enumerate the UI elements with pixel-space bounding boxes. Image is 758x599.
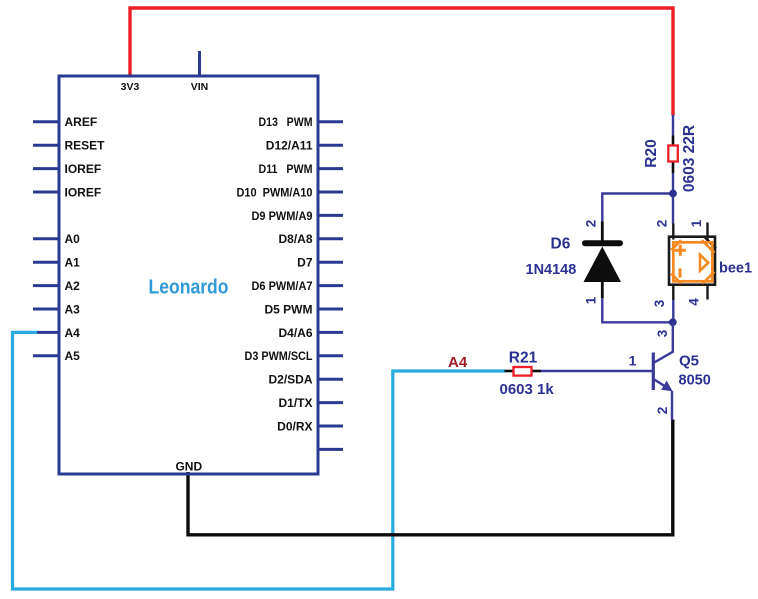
pin IOREF2 stub — [33, 191, 59, 194]
svg-text:A4: A4 — [448, 354, 468, 371]
svg-text:D6: D6 — [551, 236, 571, 253]
wire GND net (black) — [188, 420, 673, 535]
pin D7 stub — [318, 261, 343, 264]
junction dot at collector node — [669, 318, 677, 326]
speaker triangle — [700, 255, 708, 271]
resistor R21 leads — [505, 370, 542, 373]
pin A1 stub — [33, 261, 59, 264]
svg-text:D4/A6: D4/A6 — [278, 326, 312, 340]
wire R21 to Q5 base — [541, 370, 652, 372]
svg-text:3: 3 — [655, 329, 670, 337]
svg-text:D7: D7 — [297, 256, 313, 270]
pin A3 stub — [33, 308, 59, 311]
pin D9 stub — [318, 214, 343, 217]
pin D12 stub — [318, 144, 343, 147]
right pin stubs — [318, 122, 343, 450]
svg-text:3: 3 — [652, 299, 667, 307]
pin A4 stub — [37, 331, 59, 334]
Arduino Leonardo module body — [59, 76, 318, 474]
pin RESET stub — [33, 144, 59, 147]
svg-text:A5: A5 — [65, 349, 81, 363]
wire node down to buzzer pin 2 — [672, 194, 674, 224]
svg-text:1: 1 — [584, 296, 599, 304]
svg-text:D12/A11: D12/A11 — [266, 139, 313, 153]
svg-text:D3 PWM/SCL: D3 PWM/SCL — [245, 349, 313, 363]
left pin labels — [65, 115, 106, 363]
svg-text:A4: A4 — [65, 326, 81, 340]
junction dot at R20/D6/buzzer node — [669, 190, 677, 198]
svg-text:2: 2 — [584, 220, 599, 228]
svg-text:1N4148: 1N4148 — [526, 262, 577, 278]
svg-text:2: 2 — [655, 220, 670, 228]
svg-text:4: 4 — [687, 298, 702, 306]
svg-text:1: 1 — [629, 353, 637, 369]
pin D5 stub — [318, 308, 343, 311]
resistor R20 leads — [672, 115, 674, 194]
svg-text:AREF: AREF — [65, 115, 98, 129]
pin D11 stub — [318, 167, 343, 170]
pin VIN — [191, 51, 209, 93]
buzzer pin 2 lead — [672, 224, 674, 240]
svg-text:A2: A2 — [65, 279, 81, 293]
pin D3 stub — [318, 354, 343, 357]
unlabeled pin stub — [318, 448, 343, 451]
svg-text:A3: A3 — [65, 302, 81, 316]
svg-text:GND: GND — [175, 460, 202, 474]
pin AREF stub — [33, 120, 59, 123]
svg-text:RESET: RESET — [65, 139, 106, 153]
svg-text:3V3: 3V3 — [121, 81, 140, 93]
pin D10 stub — [318, 191, 343, 194]
pin D8 stub — [318, 237, 343, 240]
plus mark — [675, 245, 686, 278]
svg-text:1: 1 — [689, 219, 704, 227]
svg-text:Q5: Q5 — [679, 353, 699, 370]
left pin stubs — [33, 122, 59, 356]
svg-text:D11 PWM: D11 PWM — [259, 162, 313, 176]
svg-text:D2/SDA: D2/SDA — [268, 373, 312, 387]
svg-text:Leonardo: Leonardo — [149, 276, 229, 299]
svg-text:A0: A0 — [65, 232, 81, 246]
svg-text:R20: R20 — [643, 139, 660, 167]
wire diode anode to collector node — [602, 298, 673, 322]
pin A0 stub — [33, 237, 59, 240]
svg-text:D8/A8: D8/A8 — [278, 232, 312, 246]
diode D6 — [584, 222, 622, 299]
svg-text:0603 22R: 0603 22R — [681, 125, 698, 192]
pin D4 stub — [318, 331, 343, 334]
buzzer pin 1 lead — [706, 223, 708, 240]
pin A2 stub — [33, 284, 59, 287]
svg-text:A1: A1 — [65, 256, 81, 270]
svg-text:R21: R21 — [509, 350, 538, 367]
right pin labels — [237, 115, 313, 433]
svg-text:8050: 8050 — [679, 373, 711, 389]
buzzer bee1 body — [669, 237, 716, 285]
pin D13 stub — [318, 120, 343, 123]
buzzer pin 3 lead — [672, 284, 674, 300]
svg-text:IOREF: IOREF — [65, 185, 102, 199]
buzzer pin 4 lead — [706, 284, 708, 299]
svg-text:2: 2 — [655, 407, 670, 415]
pin D0 stub — [318, 425, 343, 428]
wire buzzer pin3 to collector node — [672, 300, 674, 322]
svg-text:D6 PWM/A7: D6 PWM/A7 — [252, 279, 313, 293]
svg-text:bee1: bee1 — [719, 261, 752, 277]
svg-text:IOREF: IOREF — [65, 162, 102, 176]
svg-text:D10 PWM/A10: D10 PWM/A10 — [237, 185, 313, 199]
svg-text:VIN: VIN — [191, 81, 209, 93]
wire 3V3 to R20 (red power net) — [130, 8, 673, 116]
resistor R20 — [668, 146, 678, 162]
pin D6 stub — [318, 284, 343, 287]
svg-text:D0/RX: D0/RX — [277, 419, 312, 433]
pin IOREF stub — [33, 167, 59, 170]
pin A5 stub — [33, 354, 59, 357]
svg-text:0603 1k: 0603 1k — [500, 381, 555, 398]
resistor R21 — [514, 367, 532, 376]
pin D2 stub — [318, 378, 343, 381]
svg-text:D5 PWM: D5 PWM — [265, 302, 313, 316]
svg-text:D1/TX: D1/TX — [278, 396, 312, 410]
pin D1 stub — [318, 401, 343, 404]
wire A4 net (cyan) — [13, 332, 506, 589]
svg-text:D13 PWM: D13 PWM — [259, 115, 313, 129]
wire node to diode branch — [602, 194, 673, 222]
svg-text:D9 PWM/A9: D9 PWM/A9 — [252, 209, 313, 223]
transistor Q5 — [653, 322, 673, 420]
